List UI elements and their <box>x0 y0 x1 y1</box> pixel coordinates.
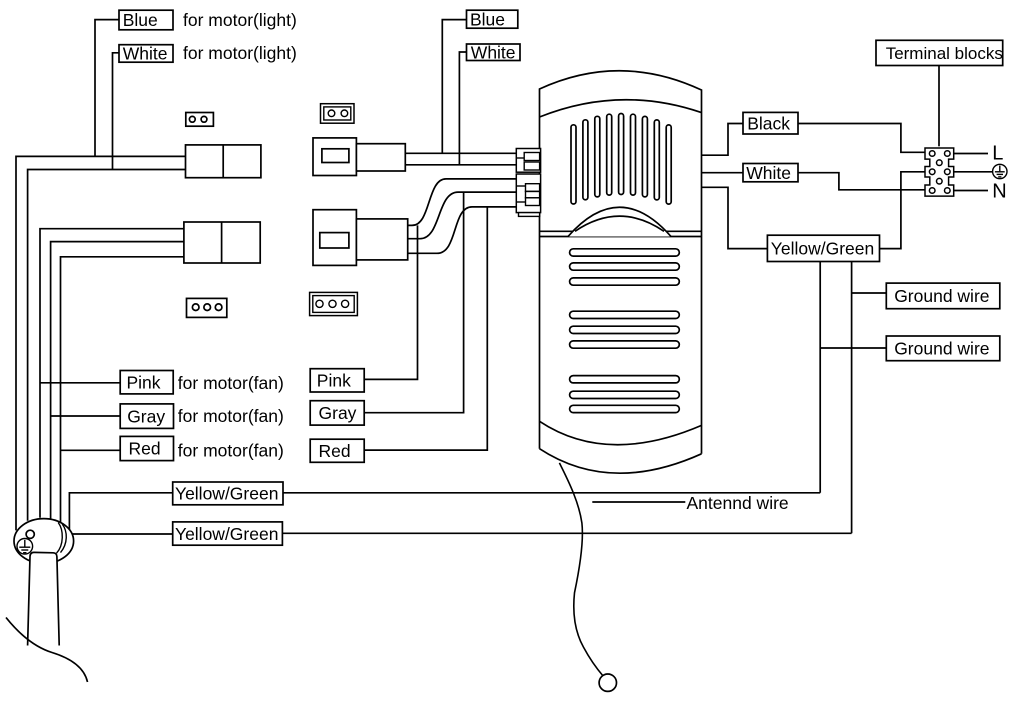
svg-text:for motor(light): for motor(light) <box>183 10 297 30</box>
label box Ground wire 1 <box>886 283 1000 309</box>
connector CN3 (3-pos plug) <box>184 222 260 263</box>
wire white (label to terminal N) <box>798 173 925 190</box>
wire white (middle) <box>459 52 466 165</box>
canopy wire hole <box>26 530 34 538</box>
svg-text:for motor(light): for motor(light) <box>183 43 297 63</box>
svg-text:Terminal blocks: Terminal blocks <box>886 44 1003 63</box>
svg-text:Black: Black <box>747 113 790 133</box>
canopy wire bundle arc 2 <box>61 524 67 553</box>
svg-text:Yellow/Green: Yellow/Green <box>175 524 278 544</box>
wire to connector CN2 pin2 <box>28 170 186 521</box>
wire right yellow/green vertical B <box>851 262 853 534</box>
receiver band lines <box>540 231 702 236</box>
label box Terminal blocks <box>876 40 1003 65</box>
svg-text:Blue: Blue <box>470 9 505 29</box>
wire red (left) <box>61 449 121 451</box>
label box White L2 <box>119 45 173 63</box>
canopy ball <box>14 519 74 564</box>
wire yellow/green 1 long run to right <box>283 492 820 494</box>
wire L <box>954 153 988 155</box>
antenna wire pointer line <box>592 501 685 503</box>
wire pink drop (middle) <box>364 225 417 379</box>
svg-text:Ground wire: Ground wire <box>894 286 989 306</box>
label box Black R1 <box>743 112 798 134</box>
downrod <box>28 552 60 645</box>
svg-text:N: N <box>992 180 1006 202</box>
connector CN5 2-hole double border <box>321 104 355 124</box>
svg-text:for motor(fan): for motor(fan) <box>178 406 284 426</box>
svg-text:Gray: Gray <box>319 403 357 423</box>
wire ground 1 branch <box>852 292 887 294</box>
svg-text:Gray: Gray <box>127 406 165 426</box>
wire CN6 to receiver pin2 <box>405 164 516 166</box>
svg-text:Pink: Pink <box>317 371 351 391</box>
label box White M2 <box>467 44 521 61</box>
receiver vent slots <box>571 114 671 205</box>
svg-text:Blue: Blue <box>123 10 158 30</box>
wire white (receiver to label) <box>702 172 744 174</box>
wire right yellow/green vertical A <box>819 262 821 493</box>
wire yellow/green 1 (canopy to label) <box>69 493 172 531</box>
connector CN7 plug left <box>313 210 356 266</box>
wire blue (left) <box>95 20 119 157</box>
connector CN4 3-hole <box>187 298 227 317</box>
svg-text:for motor(fan): for motor(fan) <box>178 373 284 393</box>
wire gray (left) <box>51 415 121 417</box>
svg-text:White: White <box>123 44 168 64</box>
wire black (label to terminal L) <box>798 124 925 153</box>
wire ground terminal <box>954 171 993 173</box>
wire yellow/green 2 long run to right <box>282 532 851 534</box>
wire to connector CN3 pin1 <box>40 229 184 518</box>
receiver arch <box>568 207 671 236</box>
label box Gray L4 <box>120 404 173 429</box>
wire blue (middle) <box>442 20 466 154</box>
svg-text:Ground wire: Ground wire <box>894 339 989 359</box>
label box Yellow/Green R3 <box>767 235 879 261</box>
label box Red L5 <box>120 436 173 460</box>
wire to connector CN2 pin1 <box>16 156 186 530</box>
connector CN6 plug right <box>356 144 405 171</box>
canopy ground symbol <box>17 539 33 555</box>
svg-text:L: L <box>992 142 1003 164</box>
receiver connector block lower <box>516 174 540 216</box>
label box Blue M1 <box>467 10 518 28</box>
label box Ground wire 2 <box>886 336 1000 361</box>
svg-text:Red: Red <box>129 439 161 459</box>
svg-text:Antennd wire: Antennd wire <box>687 493 789 513</box>
label box Gray M4 <box>310 401 364 425</box>
receiver body <box>540 71 702 454</box>
pull chain <box>559 463 603 676</box>
connector CN7 plug right <box>356 219 407 260</box>
wire C (CN7 to receiver, s-curve) <box>408 207 517 253</box>
terminal block strip <box>925 148 954 196</box>
fan body curve <box>6 618 88 683</box>
svg-text:Pink: Pink <box>127 372 161 392</box>
wire red drop (middle) <box>364 207 487 450</box>
wire yellow/green 2 (canopy to label) <box>34 533 173 535</box>
label box Pink M3 <box>310 369 364 392</box>
wire to connector CN3 pin2 <box>51 242 184 519</box>
wire yellow/green (receiver to label) <box>702 187 768 248</box>
label box Yellow/Green L6 <box>173 482 283 505</box>
wire gray drop (middle) <box>364 192 463 413</box>
pull chain knob <box>599 674 616 691</box>
receiver connector block upper <box>516 149 540 173</box>
label box Red M5 <box>310 439 364 462</box>
wire to connector CN3 pin3 <box>61 257 184 523</box>
wire ground 2 branch <box>820 347 886 349</box>
label box Blue L1 <box>119 10 173 30</box>
canopy wire bundle arc 1 <box>57 523 63 554</box>
label box Pink L3 <box>120 371 173 394</box>
wire B (CN7 to receiver, s-curve) <box>408 192 517 239</box>
svg-text:Yellow/Green: Yellow/Green <box>175 484 278 504</box>
wire black (receiver to label) <box>702 124 744 156</box>
wire yellow/green (label to terminal ground) <box>880 172 926 249</box>
wire A (CN7 to receiver, s-curve) <box>408 179 517 226</box>
wire pink (left) <box>40 382 120 384</box>
svg-text:White: White <box>746 163 791 183</box>
svg-text:for motor(fan): for motor(fan) <box>178 441 284 461</box>
wire CN6 to receiver pin1 <box>405 152 516 154</box>
wire terminal blocks pointer <box>938 66 940 147</box>
ground symbol (terminal) <box>993 164 1007 178</box>
svg-text:Yellow/Green: Yellow/Green <box>771 239 874 259</box>
label box Yellow/Green L7 <box>173 522 283 545</box>
connector CN2 (2-pos plug) <box>186 145 261 178</box>
svg-text:White: White <box>471 42 516 62</box>
label box White R2 <box>743 164 798 182</box>
connector CN1 2-hole <box>186 113 214 127</box>
connector CN6 plug left <box>313 138 356 176</box>
receiver bottom cap <box>540 421 702 473</box>
receiver speaker slots <box>570 249 680 413</box>
svg-text:Red: Red <box>319 441 351 461</box>
connector CN8 3-hole double border <box>310 292 358 315</box>
wire white (left) <box>113 53 120 170</box>
wire N <box>954 190 988 192</box>
